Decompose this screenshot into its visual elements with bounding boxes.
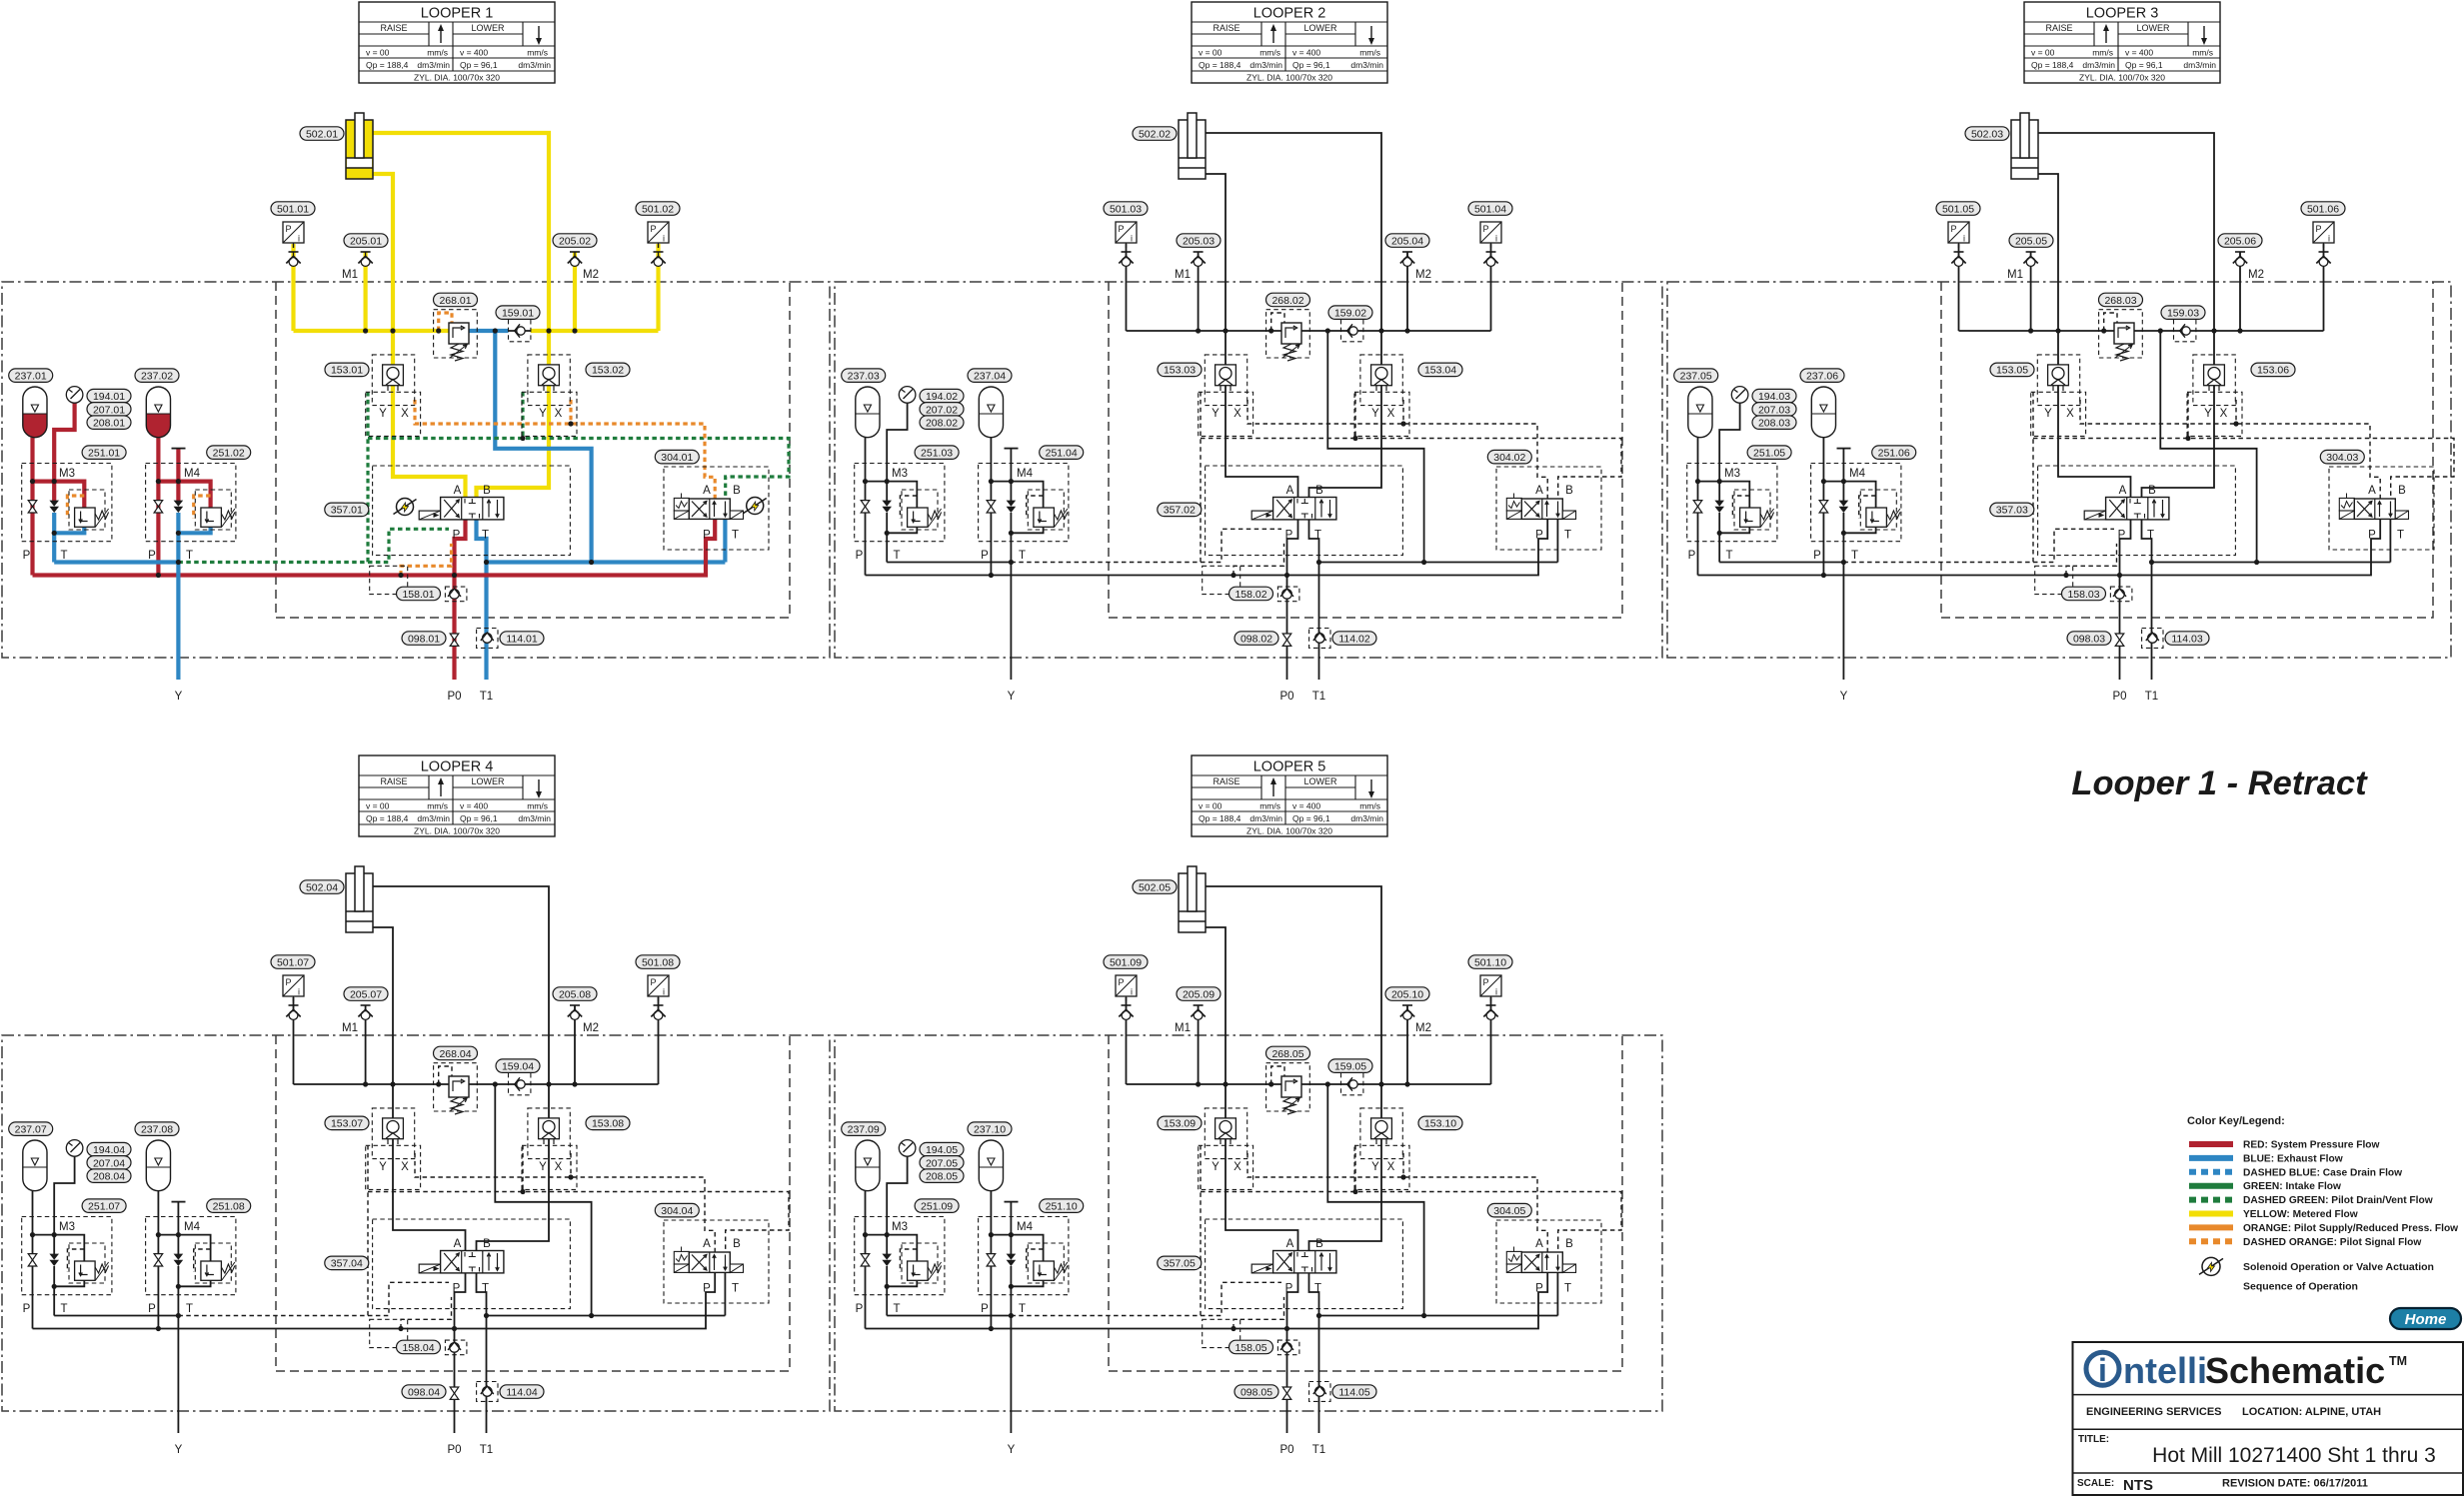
svg-text:T: T [1314, 1283, 1321, 1295]
svg-text:502.05: 502.05 [1139, 881, 1171, 893]
pilot check 153.03 [1216, 365, 1236, 386]
wire rel1out [54, 527, 84, 534]
svg-text:mm/s: mm/s [2092, 48, 2113, 58]
svg-text:dm3/min: dm3/min [2082, 60, 2115, 70]
legend swatch [2189, 1155, 2233, 1161]
svg-text:251.05: 251.05 [1753, 448, 1785, 460]
legend swatch [2189, 1183, 2233, 1189]
svg-text:Y: Y [2044, 408, 2052, 420]
svg-text:251.09: 251.09 [921, 1201, 953, 1213]
svg-text:RAISE: RAISE [380, 23, 407, 33]
relief valve 268.02 [1281, 323, 1301, 344]
wire bus268 [449, 1083, 469, 1085]
pilot line ostubR [569, 400, 572, 424]
wire yline [1010, 513, 1012, 680]
wire tline [887, 562, 1011, 564]
svg-text:X: X [1233, 1161, 1241, 1173]
svg-text:dm3/min: dm3/min [1249, 60, 1282, 70]
shutoff valves 251 blocks [28, 1254, 37, 1260]
svg-text:M2: M2 [1415, 1022, 1431, 1034]
svg-text:207.03: 207.03 [1758, 404, 1790, 416]
svg-text:357.03: 357.03 [1996, 505, 2028, 517]
svg-text:114.01: 114.01 [506, 633, 537, 645]
relief valve 251.04 [1034, 508, 1055, 527]
wire bus159a [469, 1083, 509, 1085]
svg-text:153.10: 153.10 [1424, 1118, 1456, 1130]
svg-text:mm/s: mm/s [2192, 48, 2213, 58]
wire rel1out [54, 1280, 84, 1287]
wire midLa [1718, 482, 1720, 501]
svg-text:205.05: 205.05 [2015, 235, 2047, 247]
svg-text:208.03: 208.03 [1758, 418, 1790, 430]
pilot check 153.06 [2204, 365, 2225, 386]
svg-text:P: P [1118, 977, 1124, 987]
svg-text:DASHED GREEN: Pilot Drain/Vent: DASHED GREEN: Pilot Drain/Vent Flow [2243, 1195, 2433, 1206]
svg-text:i: i [2098, 1352, 2107, 1388]
svg-text:M1: M1 [2007, 269, 2023, 281]
svg-text:153.02: 153.02 [592, 365, 624, 377]
svg-text:dm3/min: dm3/min [2183, 60, 2216, 70]
wire piR [656, 244, 660, 331]
wire toph1 [33, 482, 85, 508]
svg-text:P: P [856, 550, 864, 562]
svg-text:153.01: 153.01 [331, 365, 363, 377]
check valve 158.04 [450, 1343, 460, 1353]
pilot check 153.01 [383, 365, 404, 386]
wire m2 [1406, 1005, 1408, 1084]
svg-text:158.02: 158.02 [1234, 589, 1266, 601]
wire cylbot [1206, 174, 1298, 498]
wire Pjog [455, 1273, 466, 1433]
svg-text:Y: Y [539, 408, 547, 420]
pressure transducer 501.03 [1116, 222, 1137, 243]
wire yline [176, 513, 180, 680]
directional valve 357.02 [1251, 511, 1272, 520]
svg-text:268.04: 268.04 [439, 1048, 471, 1060]
test point M1 205.01 [361, 251, 371, 253]
svg-text:P0: P0 [1279, 691, 1293, 703]
svg-text:T: T [186, 1303, 193, 1315]
wire gauge [54, 1156, 74, 1234]
svg-text:X: X [555, 408, 563, 420]
relief valve 251.06 [1866, 508, 1887, 527]
svg-text:502.03: 502.03 [1971, 128, 2003, 140]
svg-text:dm3/min: dm3/min [417, 813, 450, 823]
pilot line gmain [2033, 439, 2454, 500]
svg-text:LOOPER 2: LOOPER 2 [1253, 6, 1326, 22]
svg-text:T: T [60, 550, 67, 562]
svg-text:114.02: 114.02 [1338, 633, 1369, 645]
svg-text:A: A [703, 485, 711, 497]
wire yline [1842, 513, 1844, 680]
test point M2 205.04 [1402, 251, 1412, 253]
wire toph1 [33, 1235, 85, 1261]
wire midLa [886, 482, 888, 501]
pilot valve 304.02 [1506, 498, 1521, 511]
pressure transducer 501.05 [1948, 222, 1969, 243]
pressure gauge 194.05 [899, 1140, 916, 1157]
svg-text:v = 00: v = 00 [2031, 48, 2055, 58]
svg-text:LOOPER 4: LOOPER 4 [421, 759, 494, 775]
wire T1jog [1309, 1273, 1319, 1433]
svg-text:A: A [2119, 485, 2127, 497]
svg-text:T1: T1 [480, 1444, 493, 1456]
svg-text:M4: M4 [184, 468, 201, 480]
wire cyltop [2038, 133, 2214, 498]
wire m2 [574, 1005, 576, 1084]
svg-text:DASHED BLUE: Case Drain Flow: DASHED BLUE: Case Drain Flow [2243, 1167, 2402, 1178]
wire accR [157, 1191, 159, 1329]
legend swatch [2189, 1197, 2233, 1203]
svg-text:M1: M1 [1175, 1022, 1191, 1034]
wire m304T [724, 1272, 726, 1315]
svg-text:153.04: 153.04 [1424, 365, 1456, 377]
pilot line orel2 [1027, 1249, 1044, 1272]
svg-text:B: B [1565, 485, 1573, 497]
pilot line ostubR [1402, 400, 1404, 424]
accumulator 237.03 [856, 387, 880, 438]
wire piR [2323, 244, 2325, 331]
svg-text:X: X [1387, 408, 1395, 420]
svg-text:501.10: 501.10 [1474, 956, 1506, 968]
svg-text:P: P [453, 1283, 461, 1295]
svg-text:P: P [981, 1303, 989, 1315]
component dashed boxes [1266, 1063, 1310, 1111]
wire T1jog [477, 520, 487, 680]
svg-text:237.09: 237.09 [848, 1124, 880, 1136]
svg-text:158.01: 158.01 [402, 589, 434, 601]
pilot line gelbow [178, 529, 449, 562]
test point M2 205.06 [2235, 251, 2245, 253]
svg-text:Schematic: Schematic [2205, 1350, 2385, 1391]
component dashed boxes [434, 310, 478, 358]
wire redlong [33, 519, 716, 575]
shutoff valves 251 blocks [861, 501, 870, 507]
LOOPER 5 header table [1192, 755, 1387, 836]
wire busR [531, 329, 659, 333]
pressure gauge 194.03 [1731, 387, 1748, 404]
svg-text:mm/s: mm/s [427, 48, 448, 58]
svg-text:A: A [454, 1238, 462, 1250]
svg-text:B: B [1315, 485, 1323, 497]
component label pills [300, 127, 344, 141]
pilot valve 304.03 [2339, 498, 2354, 511]
svg-text:P: P [650, 977, 656, 987]
looper 1 manifold boundary (dashed) [276, 282, 790, 618]
wire gauge [887, 1156, 907, 1234]
svg-text:208.04: 208.04 [93, 1171, 125, 1183]
svg-text:251.02: 251.02 [213, 448, 245, 460]
svg-text:268.05: 268.05 [1271, 1048, 1303, 1060]
pressure transducer 501.09 [1116, 975, 1137, 996]
svg-text:RAISE: RAISE [1213, 23, 1239, 33]
svg-text:dm3/min: dm3/min [1350, 813, 1383, 823]
svg-text:T: T [1851, 550, 1858, 562]
component label pills [1133, 880, 1177, 894]
pilot line orel1 [1732, 496, 1749, 519]
wire m1 [2030, 252, 2032, 331]
wire piL [1126, 997, 1128, 1084]
svg-text:Looper 1 - Retract: Looper 1 - Retract [2071, 764, 2368, 802]
svg-text:237.01: 237.01 [15, 371, 47, 383]
svg-text:251.07: 251.07 [88, 1201, 120, 1213]
svg-text:LOOPER 1: LOOPER 1 [421, 6, 494, 22]
svg-text:mm/s: mm/s [527, 48, 548, 58]
wire m304T [1556, 1272, 1558, 1315]
wire accR [156, 438, 160, 576]
component dashed boxes [2099, 310, 2143, 358]
svg-text:P: P [1688, 550, 1696, 562]
svg-text:Y: Y [2204, 408, 2212, 420]
svg-text:153.08: 153.08 [592, 1118, 624, 1130]
check valve 159.04 [517, 1080, 525, 1088]
wire tline [1719, 562, 1843, 564]
svg-text:P: P [1118, 224, 1124, 234]
svg-text:i: i [1495, 987, 1497, 997]
svg-text:T: T [186, 550, 193, 562]
svg-text:i: i [663, 234, 665, 244]
svg-text:NTS: NTS [2123, 1477, 2153, 1494]
pilot line gstubR [1354, 392, 1356, 439]
svg-text:P: P [2118, 530, 2126, 542]
svg-text:304.04: 304.04 [661, 1205, 693, 1217]
svg-text:098.04: 098.04 [408, 1386, 440, 1398]
svg-text:Y: Y [1008, 691, 1016, 703]
looper 4 manifold boundary (dashed) [276, 1035, 790, 1371]
pilot line ostubR [1402, 1153, 1404, 1177]
pilot line o357p [401, 1297, 452, 1329]
pressure transducer 501.02 [648, 222, 669, 243]
relief valve 268.03 [2114, 323, 2134, 344]
wire accL [32, 1191, 34, 1329]
wire m1 [365, 1005, 367, 1084]
svg-text:LOWER: LOWER [1303, 776, 1337, 786]
svg-text:ZYL. DIA. 100/70x 320: ZYL. DIA. 100/70x 320 [1246, 73, 1332, 83]
component label pills [1133, 127, 1177, 141]
svg-text:501.03: 501.03 [1110, 203, 1142, 215]
pressure transducer 501.01 [283, 222, 304, 243]
wire m4top [1842, 449, 1844, 501]
svg-text:159.05: 159.05 [1334, 1061, 1366, 1073]
svg-text:TITLE:: TITLE: [2078, 1434, 2109, 1445]
svg-text:i: i [1131, 234, 1133, 244]
LOOPER 5 circuit [835, 755, 1662, 1456]
svg-text:T: T [1725, 550, 1732, 562]
wire tline [54, 560, 178, 564]
wire Pjog [1287, 520, 1298, 680]
svg-text:GREEN: Intake Flow: GREEN: Intake Flow [2243, 1181, 2341, 1192]
pilot line orel1 [900, 496, 917, 519]
wire piL [291, 244, 295, 331]
actuation indicator 304.01 [747, 498, 764, 515]
svg-text:T: T [482, 1283, 489, 1295]
wire cyltop [1206, 133, 1381, 498]
wire accR [990, 1191, 992, 1329]
svg-text:i: i [1495, 234, 1497, 244]
pilot line omain [2080, 400, 2380, 499]
svg-text:Home: Home [2405, 1311, 2447, 1328]
junction dots [1196, 1081, 1201, 1086]
pilot line gelbow [1011, 529, 1281, 562]
component dashed boxes [434, 1063, 478, 1111]
wire cylbot [2038, 174, 2131, 498]
svg-text:159.01: 159.01 [502, 308, 534, 320]
pilot line ostubR [2235, 400, 2237, 424]
wire m1 [1198, 1005, 1200, 1084]
LOOPER 2 header table [1192, 2, 1387, 83]
svg-text:P: P [148, 550, 156, 562]
svg-text:194.05: 194.05 [926, 1144, 958, 1156]
legend swatch [2189, 1238, 2233, 1244]
svg-text:v = 400: v = 400 [1292, 801, 1320, 811]
svg-text:Y: Y [539, 1161, 547, 1173]
wire vert495 [495, 1084, 591, 1316]
svg-text:v = 00: v = 00 [1199, 801, 1223, 811]
svg-text:114.03: 114.03 [2171, 633, 2202, 645]
wire m4bar [1837, 448, 1851, 450]
wire m1 [364, 252, 368, 331]
wire cylbot [1206, 927, 1298, 1251]
relief valve 251.10 [1034, 1261, 1055, 1280]
svg-text:Qp = 188,4: Qp = 188,4 [366, 60, 409, 70]
wire toph2 [158, 1235, 210, 1261]
svg-text:159.03: 159.03 [2167, 308, 2199, 320]
svg-text:159.02: 159.02 [1334, 308, 1366, 320]
svg-text:B: B [2398, 485, 2406, 497]
wire piR [1490, 997, 1492, 1084]
wire tline [887, 1315, 1011, 1317]
pilot line orel2 [194, 496, 211, 519]
test point M1 205.07 [361, 1004, 371, 1006]
svg-text:M4: M4 [1017, 468, 1034, 480]
wire vert495 [2160, 331, 2256, 563]
wire bus159b [1341, 1083, 1363, 1085]
accumulator 237.06 [1811, 387, 1835, 438]
svg-text:501.09: 501.09 [1110, 956, 1142, 968]
svg-text:mm/s: mm/s [1359, 48, 1380, 58]
check valve 114.02 [1315, 634, 1325, 644]
svg-text:502.04: 502.04 [306, 881, 338, 893]
svg-text:153.09: 153.09 [1164, 1118, 1196, 1130]
pilot check 153.07 [383, 1118, 404, 1139]
wire vert495 [1327, 1084, 1423, 1316]
relief valve 251.01 [75, 508, 96, 527]
svg-text:205.02: 205.02 [559, 235, 591, 247]
svg-text:Y: Y [1212, 1161, 1220, 1173]
svg-text:P: P [703, 530, 711, 542]
svg-text:A: A [2368, 485, 2376, 497]
svg-text:i: i [1131, 987, 1133, 997]
wire tret [1319, 1315, 1558, 1317]
pilot line omain [1247, 1153, 1547, 1252]
svg-text:T: T [732, 1283, 739, 1295]
svg-text:dm3/min: dm3/min [1350, 60, 1383, 70]
svg-text:304.05: 304.05 [1493, 1205, 1525, 1217]
svg-text:Y: Y [175, 691, 183, 703]
legend swatch [2189, 1224, 2233, 1230]
svg-text:T1: T1 [480, 691, 493, 703]
wire rel2out [1011, 1280, 1043, 1287]
pilot line o268 [2104, 313, 2117, 331]
shutoff 098.02 [1282, 634, 1291, 640]
svg-text:205.03: 205.03 [1183, 235, 1215, 247]
svg-text:v = 400: v = 400 [460, 48, 488, 58]
wire midLa [53, 1235, 55, 1254]
pilot line orel1 [67, 1249, 84, 1272]
wire toph1 [1698, 482, 1750, 508]
wire cyltop [373, 886, 549, 1251]
check valve 159.05 [1349, 1080, 1357, 1088]
wire cylbot [373, 174, 466, 498]
wire midLb [52, 513, 56, 563]
svg-text:A: A [1535, 1238, 1543, 1250]
pilot line o357p [401, 544, 452, 576]
svg-text:207.02: 207.02 [926, 404, 958, 416]
wire rel1out [1719, 527, 1749, 534]
svg-text:153.06: 153.06 [2257, 365, 2289, 377]
svg-text:T: T [60, 1303, 67, 1315]
relief valve 268.05 [1281, 1076, 1301, 1097]
svg-text:v = 00: v = 00 [1199, 48, 1223, 58]
svg-text:A: A [454, 485, 462, 497]
pilot line gstubR [1354, 1145, 1356, 1192]
svg-text:P: P [981, 550, 989, 562]
svg-text:mm/s: mm/s [427, 801, 448, 811]
svg-text:YELLOW: Metered Flow: YELLOW: Metered Flow [2243, 1209, 2358, 1220]
svg-text:ENGINEERING SERVICES: ENGINEERING SERVICES [2086, 1406, 2222, 1418]
wire rel2out [178, 527, 210, 534]
pilot line orel1 [67, 496, 84, 519]
svg-text:205.10: 205.10 [1391, 988, 1423, 1000]
svg-text:Qp = 96,1: Qp = 96,1 [1292, 813, 1330, 823]
svg-text:357.05: 357.05 [1164, 1258, 1196, 1270]
svg-text:P: P [453, 530, 461, 542]
wire busR [1363, 330, 1491, 332]
wire Pjog [1287, 1273, 1298, 1433]
svg-text:M3: M3 [892, 468, 908, 480]
check valve 114.03 [2148, 634, 2158, 644]
wire yline [1010, 1266, 1012, 1433]
wire gauge [1719, 403, 1739, 481]
test point M1 205.05 [2026, 251, 2036, 253]
svg-text:mm/s: mm/s [1259, 48, 1280, 58]
LOOPER 2 circuit [835, 2, 1662, 703]
svg-text:501.01: 501.01 [277, 203, 309, 215]
svg-text:P: P [1535, 530, 1543, 542]
wire m4bar [1005, 448, 1019, 450]
pressure transducer 501.04 [1480, 222, 1501, 243]
svg-text:T: T [1019, 550, 1026, 562]
svg-text:T1: T1 [1312, 691, 1325, 703]
relief valve 268.04 [449, 1076, 469, 1097]
wire bus268 [1281, 1083, 1301, 1085]
svg-text:Y: Y [1212, 408, 1220, 420]
wire m1 [1198, 252, 1200, 331]
svg-text:502.02: 502.02 [1139, 128, 1171, 140]
wire toph1 [866, 1235, 918, 1261]
svg-text:B: B [1315, 1238, 1323, 1250]
pilot line gmain [1201, 1192, 1621, 1253]
svg-text:208.02: 208.02 [926, 418, 958, 430]
wire gauge [887, 403, 907, 481]
wire piL [1126, 244, 1128, 331]
svg-text:REVISION DATE: 06/17/2011: REVISION DATE: 06/17/2011 [2222, 1478, 2368, 1490]
svg-text:dm3/min: dm3/min [518, 813, 551, 823]
svg-text:P: P [703, 1283, 711, 1295]
junction dots [363, 1081, 368, 1086]
svg-text:098.02: 098.02 [1240, 633, 1272, 645]
pilot line gleft [2032, 392, 2034, 563]
